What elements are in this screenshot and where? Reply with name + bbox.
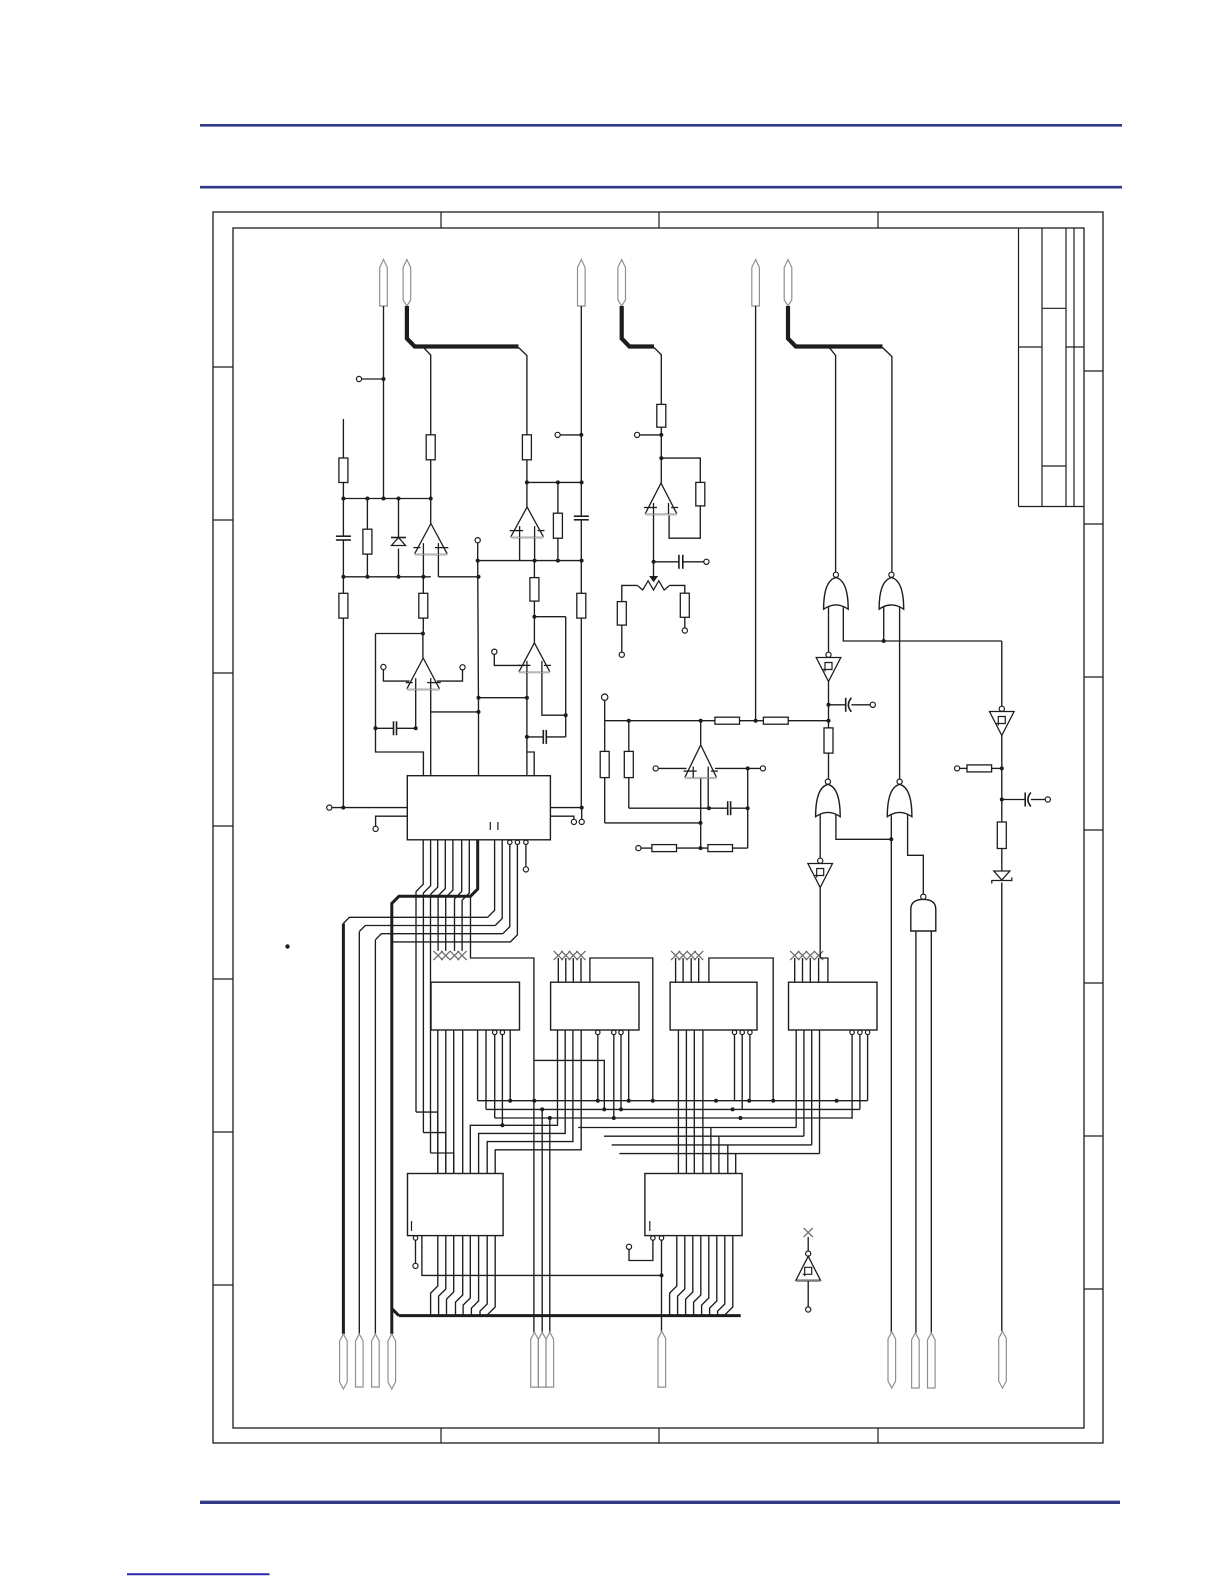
bus row4 right: [578, 1127, 796, 1129]
node dot C2: [414, 726, 418, 730]
wire res row c: [733, 847, 748, 849]
resistor R10: [657, 404, 666, 427]
wire G4 right input: [908, 815, 924, 895]
op-amp U3: [510, 507, 545, 538]
wire U5 output: [660, 458, 662, 483]
resistor R1: [339, 458, 348, 483]
wire J2.1 down: [580, 306, 582, 516]
resistor R15: [763, 717, 788, 724]
wire G4 left input: [890, 815, 892, 1333]
wire R22 down: [1001, 849, 1003, 872]
connector J5 pin3: [546, 1332, 554, 1387]
wire C7 arms: [829, 704, 871, 706]
wire 697 link: [479, 697, 527, 699]
wire R4 leads: [342, 577, 344, 808]
node dot C6: [746, 806, 750, 810]
thick bus elbow: [392, 1309, 399, 1316]
node dot 808: [707, 806, 711, 810]
wire R1 top lead: [342, 419, 344, 458]
zener diode D1: [391, 538, 406, 546]
wire S2 in: [1001, 641, 1003, 706]
op-amp U6: [684, 745, 718, 778]
wire fb right: [565, 617, 567, 737]
op-amp U2: [406, 658, 441, 690]
IC7 pin bubble b: [659, 1236, 663, 1240]
wire rail1: [343, 498, 430, 500]
IC3 bubble wires: [598, 1030, 629, 1118]
terminal T24: [1045, 797, 1050, 802]
IC6 inner mark: [411, 1221, 413, 1231]
wire R5 leads: [422, 577, 424, 634]
node dots rail1: [341, 497, 432, 501]
wire long vertical: [477, 543, 480, 776]
bus branch wire C: [654, 348, 661, 405]
jog verticals to IC6: [416, 892, 454, 1174]
top border zone ticks: [441, 212, 878, 228]
wire S4 out: [807, 1281, 809, 1307]
wire U6 +in down: [700, 778, 702, 848]
IC2 bottom pins to rows: [478, 1030, 486, 1109]
IC2 bubble dot: [500, 1123, 504, 1127]
bus row6 right: [612, 1144, 812, 1146]
IC4 bottom bubbles: [732, 1030, 752, 1034]
jog verticals to X: [438, 896, 462, 951]
wire U6 -in down: [707, 778, 709, 808]
terminal T7: [635, 432, 640, 437]
wire C6 right arm: [731, 807, 748, 809]
wire stub T19: [525, 845, 527, 867]
op-amp U5: [644, 483, 678, 514]
wire U5 fb2: [669, 506, 700, 538]
capacitor C5: [679, 555, 683, 569]
capacitor C4: [543, 730, 546, 744]
IC5 block: [789, 982, 878, 1030]
node dot C2 left: [374, 726, 378, 730]
wire C1 leads: [342, 499, 344, 577]
wire rail4 b: [740, 720, 764, 722]
connector J4 pin2: [356, 1334, 364, 1387]
resistor R17: [624, 751, 633, 777]
wire G1 left input: [828, 607, 830, 652]
wire R17 leads: [628, 721, 630, 809]
schematic outer border: [213, 212, 1103, 1443]
wire R3 leads: [366, 499, 368, 577]
connector J5 pin1: [531, 1332, 539, 1387]
wire IC1 right stub1: [550, 807, 581, 809]
wire S1 out: [828, 682, 830, 721]
IC7 bottom staircase: [670, 1236, 733, 1316]
wire T4: [560, 434, 581, 436]
terminal T19: [523, 867, 528, 872]
wire T7: [640, 434, 662, 436]
wire rail4 a: [605, 720, 715, 722]
IC4 top no-connect stubs: [671, 951, 703, 982]
wire R6 bottom: [526, 460, 528, 483]
bus row3: [495, 1117, 852, 1119]
capacitor C1: [336, 536, 351, 540]
resistor R11: [696, 482, 705, 506]
wire mid pin3: [549, 1118, 551, 1332]
wire R9 leads: [533, 561, 535, 617]
wire T21: [629, 1240, 653, 1260]
wire IC7 pin4 down: [661, 1240, 663, 1331]
IC6 pin bubble: [413, 1236, 417, 1240]
node dots rail4: [627, 719, 703, 723]
wire U4 fb top: [534, 616, 565, 618]
wire R12 bottom: [621, 625, 623, 652]
footer link underline: [127, 1573, 270, 1575]
node dot T7: [659, 433, 663, 437]
wire U5 +in: [653, 515, 655, 577]
wire S3 out: [820, 888, 828, 983]
node dot fb: [659, 456, 663, 460]
node dot link: [660, 1273, 664, 1277]
resistor R12: [617, 602, 626, 626]
terminal T14: [636, 846, 641, 851]
bus branch wire D: [829, 348, 835, 573]
terminal T17: [571, 819, 576, 824]
IC2 bubble wires: [495, 1030, 511, 1125]
IC2 bottom pins: [438, 1030, 463, 1174]
node dot 839: [889, 837, 893, 841]
node dot +in bus: [477, 710, 481, 714]
wire R2 bottom lead: [430, 460, 432, 499]
wire G2 left input: [883, 607, 885, 641]
header rule 2: [200, 186, 1122, 189]
connector J2 pin 1: [578, 260, 586, 307]
IC5 bottom bubbles: [850, 1030, 870, 1034]
connector J1 pin 1: [380, 260, 388, 307]
trimmer RV1 wiper: [649, 576, 658, 582]
terminal T25: [806, 1307, 811, 1312]
wire T3: [437, 670, 463, 681]
bus row5 right: [604, 1135, 804, 1137]
wire fb right U6: [747, 768, 749, 848]
wire U4 output: [533, 617, 535, 643]
terminal T21: [626, 1244, 631, 1249]
wire rail4 c: [788, 720, 828, 722]
bus wire from J2.2: [622, 306, 654, 347]
wire J1.1 down: [383, 306, 385, 499]
IC3 bottom bubbles: [596, 1030, 624, 1034]
wire U3 +in: [519, 538, 521, 561]
node dot S2 cap: [1000, 798, 1004, 802]
terminal T18: [579, 819, 584, 824]
terminal T11: [602, 694, 608, 700]
wire 1060 stub: [534, 1060, 604, 1109]
wire IC6 to IC7 link: [422, 1236, 662, 1276]
wire C8 arms: [1002, 799, 1045, 801]
bus branch wire E: [883, 348, 892, 573]
terminal T15: [327, 805, 332, 810]
connector J1 pin 2: [403, 260, 411, 307]
node dot S2 res: [1000, 766, 1004, 770]
IC1 block: [407, 776, 550, 840]
wire T12: [658, 767, 686, 769]
capacitor C6: [728, 801, 731, 815]
bus row6 link: [487, 1030, 573, 1174]
node dot rail4 end: [827, 719, 831, 723]
wire R13 bottom: [684, 617, 686, 628]
IC7 pin bubble a: [651, 1236, 655, 1240]
connector J5 pin2: [538, 1332, 546, 1387]
capacitor C3: [574, 516, 589, 520]
header rule 1: [200, 124, 1122, 127]
resistor R2: [426, 435, 435, 460]
terminal T9: [619, 652, 624, 657]
NOR gate G2: [879, 572, 904, 609]
connector J7 pin2: [912, 1333, 920, 1388]
IC7 inner mark: [649, 1221, 651, 1231]
resistor R19: [708, 845, 733, 852]
terminal T23: [955, 766, 960, 771]
diode D2: [992, 871, 1012, 884]
wire U4 -in: [542, 673, 566, 716]
wire G3 right input: [836, 815, 891, 840]
wire res row a: [641, 847, 652, 849]
connector J7 pin3: [928, 1333, 936, 1388]
wire T1: [362, 378, 384, 380]
connector J6 pin1: [658, 1331, 666, 1387]
resistor R20: [824, 728, 833, 753]
wire C2 arms: [376, 727, 416, 729]
node dot res row: [699, 846, 703, 850]
no-connect X marks IC2: [434, 951, 467, 960]
wire U6 right: [715, 767, 760, 769]
node dot S1 cap: [827, 703, 831, 707]
IC4 bubble wires: [735, 1035, 750, 1110]
right border zone ticks: [1084, 371, 1103, 1289]
wire IC1 left stub2: [376, 816, 408, 826]
thick bottom bus: [399, 1314, 741, 1317]
IC2 bottom bubbles: [493, 1030, 505, 1034]
resistor R18: [652, 845, 677, 852]
bus branch wire B: [519, 348, 527, 435]
resistor R8: [577, 593, 586, 618]
IC3 block: [551, 982, 639, 1030]
title block: [1019, 228, 1085, 507]
wire mid pin1: [533, 1060, 535, 1332]
wire U2 output: [422, 634, 424, 659]
node dot U4: [532, 615, 536, 619]
node dot 822: [699, 821, 703, 825]
wire bubble stub: [415, 1240, 417, 1263]
connector J3 pin 2: [784, 260, 792, 307]
resistor R22: [997, 822, 1006, 849]
node dot +in h: [525, 696, 529, 700]
wire D1 leads: [398, 499, 400, 577]
left border zone ticks: [213, 367, 233, 1285]
wire RV1 left lead: [622, 585, 638, 601]
node dot: [382, 377, 386, 381]
IC4 bent pin: [709, 958, 773, 1101]
wire G1 right input: [843, 607, 1002, 641]
bus row3 dots: [548, 1116, 743, 1120]
capacitor C8: [1025, 793, 1031, 807]
bottom border zone ticks: [441, 1428, 878, 1443]
terminal T20: [413, 1263, 418, 1268]
wire U2 +in: [431, 690, 479, 712]
op-amp U1: [414, 524, 449, 555]
IC5 top no-connect stubs: [790, 951, 823, 982]
wire T5: [494, 654, 520, 665]
wire rail2b: [438, 576, 478, 578]
connector J7 pin1: [888, 1332, 896, 1388]
node dot rail2b: [477, 575, 481, 579]
wire T18 lead: [581, 808, 583, 820]
terminal T6: [475, 538, 480, 543]
IC1 mid pin bubbles: [508, 840, 529, 844]
terminal T22: [870, 702, 875, 707]
bus wire from J1.2: [407, 306, 519, 347]
connector J4 pin3: [372, 1334, 380, 1387]
bus row5 link: [479, 1030, 566, 1174]
IC5 bubble wires: [852, 1035, 868, 1119]
terminal T2: [381, 664, 386, 669]
terminal T12: [653, 766, 658, 771]
wire mid pin2: [541, 1109, 543, 1332]
resistor R9: [530, 578, 539, 602]
wire res row b: [677, 847, 708, 849]
IC1 pin staircase jogs: [416, 840, 469, 900]
wire G3 left input: [819, 815, 821, 859]
resistor R16: [600, 751, 609, 777]
wire U2 +in down: [430, 712, 432, 776]
wire IC1 right stub2: [550, 816, 574, 819]
wire J2.1 down3: [580, 618, 582, 808]
node dots rail2: [341, 575, 425, 579]
stray junction dot: [285, 944, 289, 948]
wire R20 leads: [828, 721, 830, 779]
node dot U3 top: [525, 480, 529, 484]
terminal T13: [760, 766, 765, 771]
node dot T4: [579, 433, 583, 437]
resistor R13: [680, 593, 689, 617]
schmitt S1: [816, 652, 841, 681]
IC6 block: [408, 1174, 504, 1236]
footer rule: [200, 1501, 1120, 1504]
IC2 block: [431, 982, 520, 1030]
wire U1 -in: [422, 555, 424, 577]
wire R1 bottom lead: [342, 483, 344, 499]
wire C4 arms: [527, 736, 566, 738]
thick bus path: [392, 840, 478, 1334]
bus row1: [478, 1100, 868, 1102]
wire G5 input a: [915, 931, 917, 1333]
node dot U2 out: [421, 632, 425, 636]
wire U2 -in: [415, 690, 417, 728]
wire D2 down: [1001, 883, 1003, 1332]
node dots rail 482: [556, 480, 584, 484]
schmitt S2: [990, 706, 1015, 735]
left bus verticals: [343, 924, 375, 1335]
connector J8 pin1: [999, 1331, 1007, 1388]
connector J3 pin 1: [752, 260, 760, 307]
wire rail2: [343, 576, 431, 578]
node dot C4: [525, 735, 529, 739]
resistor R3: [363, 529, 372, 554]
wire RV1 right lead: [670, 585, 685, 593]
schmitt S4: [796, 1251, 821, 1281]
node dot J3.1: [754, 719, 758, 723]
op-amp U4: [518, 643, 551, 673]
wire U3 -in: [534, 538, 536, 561]
wire J3.1 down: [755, 306, 757, 721]
wire rail 482: [527, 481, 582, 483]
bus wire from J3.2: [788, 306, 883, 347]
IC6 bottom staircase: [431, 1236, 496, 1316]
terminal T1: [356, 376, 361, 381]
IC1 mid pins to left bus: [343, 840, 509, 940]
wire IC1 left stub1: [332, 807, 407, 809]
wire T2: [383, 670, 409, 682]
IC5 bottom pins staircase: [711, 1030, 820, 1174]
wire R21 arms: [960, 767, 1002, 769]
resistor R7: [553, 513, 562, 538]
schematic inner border: [233, 228, 1084, 1428]
IC7 block: [645, 1174, 742, 1236]
wire U5 fb: [661, 458, 700, 482]
node dot U6 right: [746, 766, 750, 770]
no-connect X S4: [804, 1228, 813, 1237]
resistor R14: [715, 717, 740, 724]
bus row1 dots: [508, 1099, 838, 1103]
bus row7 right: [619, 1153, 819, 1155]
wire U2 feedback left: [376, 634, 424, 776]
wire U3 output: [526, 482, 528, 507]
bus row7 link: [495, 1030, 581, 1174]
node dots rail3: [476, 559, 584, 563]
bus row2: [486, 1108, 860, 1110]
wire R16 leads: [604, 721, 606, 823]
terminal T3: [460, 665, 465, 670]
resistor R5: [419, 593, 428, 618]
NOR gate G3: [816, 779, 841, 817]
wire S4 in: [807, 1237, 809, 1251]
schmitt S3: [808, 858, 833, 887]
connector J4 pin4: [388, 1334, 396, 1389]
terminal T10: [682, 628, 687, 633]
IC1 inner marks: [490, 822, 498, 830]
wire U1 +in: [437, 555, 439, 577]
connector J2 pin 2: [618, 260, 626, 307]
wire G5 input b: [930, 931, 932, 1333]
resistor R4: [339, 593, 348, 618]
wire T11 down: [604, 700, 606, 720]
connector J4 pin1: [340, 1334, 348, 1389]
wire U2 feedback top: [376, 633, 423, 635]
IC3 top no-connect stubs: [554, 951, 586, 982]
NOR gate G4: [887, 779, 912, 817]
wire R7 leads: [557, 482, 559, 560]
IC4 bottom pins: [678, 1030, 703, 1174]
terminal T16: [373, 826, 378, 831]
capacitor C2: [394, 721, 397, 735]
terminal T8: [704, 559, 709, 564]
IC3 bent pin: [590, 958, 653, 1101]
wire -in link: [629, 807, 728, 809]
node dot stub1r: [580, 806, 584, 810]
node dot 641: [882, 639, 886, 643]
terminal T5: [492, 649, 497, 654]
resistor R21: [967, 765, 992, 772]
NOR gate G1: [824, 572, 849, 609]
wire rail3: [478, 560, 582, 562]
bus branch wire A: [424, 348, 431, 435]
capacitor C7: [846, 698, 852, 712]
node dot 715: [564, 713, 568, 717]
terminal T4: [555, 432, 560, 437]
